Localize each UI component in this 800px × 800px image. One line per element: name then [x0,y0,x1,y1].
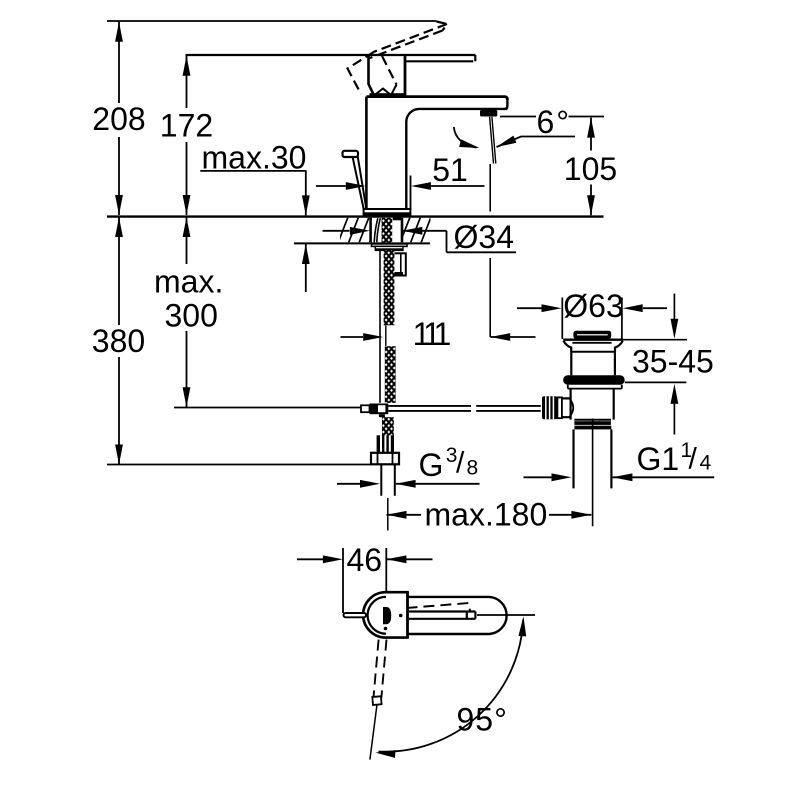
svg-text:Ø34: Ø34 [454,219,514,255]
svg-text:35-45: 35-45 [632,344,714,380]
svg-text:95°: 95° [457,702,508,738]
svg-text:51: 51 [432,152,468,188]
svg-text:111: 111 [413,316,451,352]
svg-text:/: / [456,447,465,480]
svg-text:300: 300 [165,298,218,334]
svg-text:max.30: max.30 [202,140,307,176]
svg-text:105: 105 [564,151,617,187]
svg-text:4: 4 [700,452,712,475]
svg-text:G1: G1 [637,441,680,477]
svg-text:G: G [419,447,444,483]
svg-text:8: 8 [467,457,479,480]
svg-text:6°: 6° [537,104,572,140]
svg-text:Ø63: Ø63 [563,288,623,324]
svg-text:172: 172 [160,108,213,144]
svg-text:max.: max. [154,264,223,300]
svg-text:46: 46 [347,542,383,578]
svg-text:380: 380 [92,323,145,359]
svg-text:max.180: max.180 [425,497,548,533]
svg-text:/: / [689,443,698,476]
svg-text:208: 208 [92,101,145,137]
